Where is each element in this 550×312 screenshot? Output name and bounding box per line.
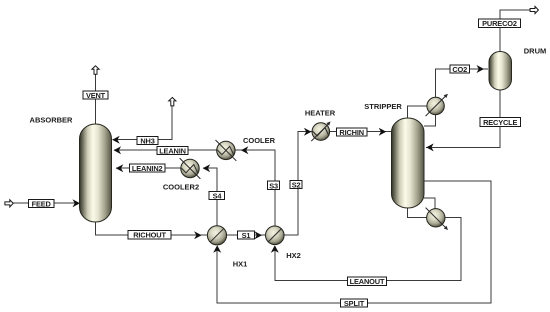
svg-text:RICHOUT: RICHOUT — [133, 231, 166, 240]
svg-text:LEANIN: LEANIN — [159, 146, 186, 155]
svg-text:STRIPPER: STRIPPER — [364, 102, 402, 111]
svg-text:RECYCLE: RECYCLE — [483, 118, 517, 127]
svg-text:HX2: HX2 — [286, 251, 301, 260]
svg-text:SPLIT: SPLIT — [344, 299, 365, 308]
svg-text:NH3: NH3 — [140, 136, 154, 145]
svg-text:HEATER: HEATER — [305, 109, 336, 118]
svg-text:LEANOUT: LEANOUT — [350, 277, 385, 286]
svg-text:S1: S1 — [242, 231, 251, 240]
svg-text:DRUM: DRUM — [524, 47, 547, 56]
svg-text:FEED: FEED — [32, 199, 52, 208]
svg-text:VENT: VENT — [86, 91, 106, 100]
svg-text:ABSORBER: ABSORBER — [30, 116, 74, 125]
svg-text:S2: S2 — [292, 180, 301, 189]
svg-text:COOLER: COOLER — [243, 136, 276, 145]
svg-text:RICHIN: RICHIN — [339, 128, 364, 137]
svg-text:S3: S3 — [269, 181, 278, 190]
svg-text:HX1: HX1 — [233, 260, 248, 269]
svg-text:S4: S4 — [213, 192, 223, 201]
svg-text:CO2: CO2 — [452, 65, 467, 74]
svg-text:LEANIN2: LEANIN2 — [132, 164, 163, 173]
svg-text:COOLER2: COOLER2 — [163, 183, 199, 192]
svg-text:PURECO2: PURECO2 — [482, 19, 517, 28]
